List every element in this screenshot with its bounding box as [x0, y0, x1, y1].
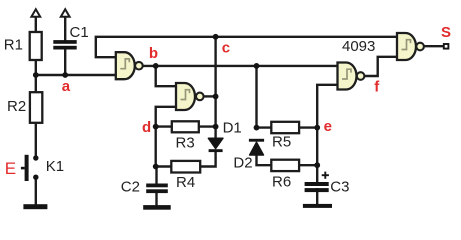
svg-text:E: E [5, 159, 16, 178]
svg-text:4093: 4093 [342, 38, 375, 55]
svg-text:R2: R2 [7, 98, 26, 115]
svg-text:b: b [149, 45, 158, 62]
svg-text:c: c [222, 39, 230, 56]
svg-text:R3: R3 [176, 135, 195, 152]
svg-text:C2: C2 [121, 179, 140, 196]
svg-text:D2: D2 [233, 155, 252, 172]
svg-text:C1: C1 [70, 24, 89, 41]
svg-text:K1: K1 [46, 158, 64, 175]
svg-text:R6: R6 [272, 173, 291, 190]
svg-text:e: e [324, 118, 332, 135]
svg-text:R5: R5 [272, 134, 291, 151]
svg-text:C3: C3 [330, 179, 349, 196]
svg-text:R4: R4 [176, 174, 195, 191]
svg-text:D1: D1 [223, 120, 242, 137]
svg-text:R1: R1 [4, 36, 23, 53]
svg-text:S: S [441, 24, 451, 41]
svg-text:d: d [142, 119, 151, 136]
svg-text:a: a [62, 78, 71, 95]
svg-text:f: f [374, 79, 380, 96]
